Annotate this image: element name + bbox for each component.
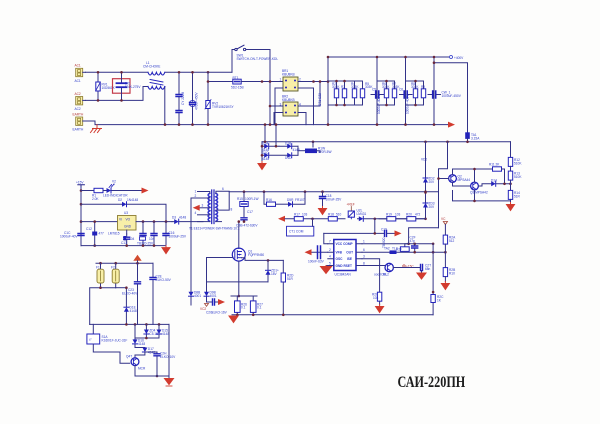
wire gate (207, 257, 233, 259)
ground under C18 (319, 207, 327, 215)
transformer T1 secondary winding (216, 193, 218, 221)
ground loop bottom wire (232, 314, 433, 316)
resistor R6 (382, 81, 390, 105)
capacitor C14 (137, 222, 154, 246)
svg-text:2: 2 (299, 78, 301, 82)
wire right riser fan (135, 324, 169, 377)
resistor R22 (443, 225, 456, 245)
svg-text:F1: F1 (96, 265, 100, 269)
wire Q3 collector (474, 169, 476, 182)
diode D8 aux (189, 291, 202, 306)
bridge rectifier BR1 (280, 69, 302, 91)
svg-text:100uF-25V: 100uF-25V (326, 197, 343, 201)
svg-text:470R-5W: 470R-5W (318, 150, 331, 154)
transformer T1 pin 2 (191, 197, 210, 199)
svg-text:1000uF-400V: 1000uF-400V (377, 94, 381, 114)
regulator U3 (108, 211, 136, 235)
svg-text:D2: D2 (118, 198, 122, 202)
diode D12 (262, 151, 288, 161)
wire BR2 plus out riser (298, 82, 320, 107)
svg-text:8: 8 (363, 261, 365, 265)
transformer T1 pin 5 (198, 221, 210, 223)
svg-text:SWITCH-ON-T-POWER-KDL: SWITCH-ON-T-POWER-KDL (237, 57, 279, 61)
wire fuse bottoms (90, 288, 116, 325)
capacitor C25 (206, 299, 228, 314)
junction on N at CX1 (120, 99, 123, 102)
svg-text:Q4T: Q4T (126, 355, 132, 359)
svg-text:GND: GND (124, 225, 132, 229)
op-amp U1 PWM controller box (334, 240, 388, 277)
wire L down to thermistor row (208, 72, 233, 81)
svg-text:AC1: AC1 (75, 79, 81, 83)
switch SW1 (235, 45, 279, 61)
svg-text:TL2: TL2 (392, 246, 398, 250)
ground arrow under sense (229, 316, 238, 323)
svg-text:1N4148: 1N4148 (127, 198, 138, 202)
svg-text:4148: 4148 (262, 157, 269, 161)
transformer T1 primary winding (208, 193, 210, 221)
capacitor C26 (145, 351, 176, 376)
fuse K2 (111, 263, 119, 288)
wire BR1 left bottom (275, 88, 283, 125)
svg-text:FQPF9N50: FQPF9N50 (248, 253, 264, 257)
svg-text:4148: 4148 (162, 332, 169, 336)
brown flag VCC chain (441, 217, 448, 225)
svg-text:VI VO: VI VO (119, 218, 131, 222)
wire BR2 minus out (298, 113, 306, 125)
capacitor C22 (421, 264, 432, 272)
svg-text:T1 EE19-POWER-SW-TRANS 10:1: T1 EE19-POWER-SW-TRANS 10:1 (189, 227, 240, 231)
wire aux top (96, 262, 153, 264)
svg-text:1000uF-25V: 1000uF-25V (169, 235, 187, 239)
svg-text:0.1: 0.1 (257, 306, 262, 310)
svg-text:R15: R15 (237, 197, 243, 201)
svg-text:TVR10621KSY: TVR10621KSY (212, 105, 234, 109)
svg-text:10D561K: 10D561K (102, 86, 116, 90)
zener ZD3 (423, 193, 435, 219)
aux rail (262, 141, 511, 143)
svg-text:3: 3 (363, 255, 365, 259)
common mode choke L1 (143, 61, 165, 89)
svg-text:5D2-15B: 5D2-15B (231, 86, 244, 90)
wire U3 out rail (136, 221, 172, 223)
svg-text:САИ-220ПН: САИ-220ПН (398, 374, 466, 392)
ground under chain (507, 203, 515, 211)
capacitor C21 (410, 236, 418, 253)
resistor R3 (341, 81, 347, 105)
wire to IC pin riser (324, 233, 328, 243)
capacitor CX1 in red box (113, 72, 142, 100)
wire startup feed bend (409, 228, 439, 244)
transformer T1 core (212, 190, 214, 224)
wire riser to switch (232, 50, 234, 73)
resistor R21 (396, 244, 409, 252)
cell3 sub wires (406, 81, 424, 105)
svg-text:5: 5 (329, 261, 331, 265)
diode D15 (157, 324, 170, 338)
net tap VCC2 red (200, 304, 209, 311)
svg-text:MPSA44: MPSA44 (458, 178, 471, 182)
electrolytic C2 (189, 72, 198, 124)
resistor R13 (508, 166, 522, 180)
fuse K1 (96, 263, 104, 288)
svg-text:4148: 4148 (179, 216, 186, 220)
resistor R7 (392, 81, 400, 105)
cell2 sub wires (377, 81, 395, 105)
svg-text:AC2: AC2 (75, 107, 81, 111)
svg-text:LM431: LM431 (357, 212, 367, 216)
wire clamp branch (264, 192, 267, 205)
svg-text:R10: R10 (449, 272, 455, 276)
svg-text:8: 8 (231, 208, 233, 212)
wire source down (238, 261, 240, 296)
wire feedback right riser (432, 244, 434, 315)
svg-text:47p: 47p (410, 239, 416, 243)
zener ZD2 (421, 142, 435, 193)
wire gate lower row (207, 281, 269, 283)
capacitor C6 electrolytic (399, 88, 412, 115)
ground under R23 (441, 282, 449, 290)
connector EARTH (73, 113, 86, 132)
svg-text:104: 104 (149, 237, 155, 241)
wire drive rail from T1 pin6 (229, 191, 438, 193)
wire Q2 emitter to Q3 base (453, 182, 471, 186)
wire R22 to junction (444, 244, 446, 268)
wire BR1 plus out (298, 81, 328, 83)
wire Q4 emitter (135, 366, 169, 376)
ground under C22 (417, 271, 426, 280)
resistor R8 (411, 81, 419, 105)
wire drain from rail (238, 222, 240, 249)
svg-text:472: 472 (415, 212, 421, 216)
svg-text:+400V: +400V (454, 56, 464, 60)
transformer T1 pin 7 (216, 221, 222, 223)
capacitor C15 (149, 222, 157, 246)
node +400V (450, 56, 465, 60)
svg-text:Q3 MPSA42: Q3 MPSA42 (470, 191, 488, 195)
svg-text:R16: R16 (266, 198, 272, 202)
wire Q3 emitter bottom (453, 190, 511, 201)
svg-text:FR107: FR107 (295, 198, 305, 202)
wire riser from bridge to diode block (265, 125, 276, 147)
ground rail of regulator (81, 245, 166, 247)
resistor R5 (360, 81, 373, 105)
svg-text:V2: V2 (112, 180, 116, 184)
bridge rectifier BR2 (280, 95, 302, 117)
capacitor C12 electrolytic (86, 222, 104, 246)
svg-text:CM-CHOKE: CM-CHOKE (143, 65, 160, 69)
svg-text:C12: C12 (86, 227, 92, 231)
wire COMP net (362, 243, 433, 245)
svg-text:20V: 20V (429, 205, 436, 209)
svg-text:R19: R19 (386, 212, 392, 216)
power flag triangle (133, 255, 141, 263)
svg-text:4148: 4148 (293, 148, 300, 152)
svg-text:CT1-EZ2: CT1-EZ2 (318, 93, 322, 106)
svg-text:4148: 4148 (138, 342, 145, 346)
diode D6 (359, 216, 364, 221)
current transformer box CT (287, 219, 314, 236)
svg-text:4: 4 (329, 255, 331, 259)
svg-text:100nF-63V: 100nF-63V (308, 260, 325, 264)
svg-text:ELKO-16V: ELKO-16V (212, 310, 228, 314)
ground under diode block (258, 162, 266, 170)
svg-text:C13: C13 (121, 241, 127, 245)
svg-text:100R-1W: 100R-1W (245, 197, 258, 201)
svg-text:6: 6 (363, 248, 365, 252)
svg-text:VCC COMP: VCC COMP (336, 242, 354, 246)
transformer T1 pin 1 (198, 192, 210, 194)
wire startup tap riser (439, 142, 448, 228)
resistor R20 (396, 212, 426, 221)
capacitor C7 electrolytic (428, 91, 462, 99)
current sense wires (231, 295, 257, 297)
rail verticals (328, 57, 434, 125)
svg-text:1: 1 (195, 190, 197, 194)
filter cap C1 string (176, 72, 185, 124)
red arrow comp out (395, 230, 402, 236)
transformer T1 pin 3 (200, 207, 210, 209)
svg-text:20V: 20V (429, 180, 436, 184)
svg-text:512: 512 (449, 239, 455, 243)
wire N after choke down (164, 87, 166, 125)
svg-text:18V: 18V (271, 272, 278, 276)
svg-text:VD2: VD2 (421, 158, 427, 162)
svg-text:4001: 4001 (210, 294, 217, 298)
ground symbol regulator (162, 246, 170, 254)
diode D2 (81, 198, 166, 222)
svg-text:F2: F2 (111, 265, 115, 269)
wire aux vertical left (190, 198, 192, 291)
diode D14 (478, 179, 510, 187)
ground at U1 GND pin (321, 266, 332, 274)
resistor R23 (443, 268, 455, 277)
svg-text:51R: 51R (287, 277, 294, 281)
wire fan top rail (90, 323, 169, 325)
DC+ top rail (328, 56, 449, 58)
svg-text:1000uF-450V: 1000uF-450V (442, 94, 462, 98)
zener ZD4 (144, 324, 158, 338)
resistor R2 (332, 81, 340, 105)
diode D9 aux (204, 282, 217, 302)
junction on L at varistor (97, 71, 100, 74)
svg-text:4148: 4148 (130, 309, 137, 313)
resistor R1 (81, 188, 103, 201)
zener ZD1 (266, 260, 280, 282)
diode D16 (133, 339, 146, 348)
resistor R19 (379, 212, 401, 221)
svg-text:AC2: AC2 (75, 92, 81, 96)
svg-text:C5: C5 (372, 88, 376, 92)
varistor RV2 (205, 82, 234, 125)
resistor R26 sense (235, 301, 248, 313)
svg-text:0.1: 0.1 (241, 306, 246, 310)
wire source right (242, 258, 284, 261)
net +15 red tap (403, 265, 415, 269)
transistor Q4 (126, 355, 146, 371)
diode D3 (172, 216, 203, 225)
diode D13 (285, 153, 298, 160)
svg-text:KBU8KB: KBU8KB (282, 98, 295, 102)
svg-text:51R: 51R (514, 194, 521, 198)
transformer T1 pin 4 (198, 214, 210, 216)
capacitor C24 (150, 263, 172, 324)
diode block side wires (262, 142, 298, 162)
svg-text:TA2: TA2 (384, 246, 390, 250)
resistor R18 (328, 212, 342, 221)
resistor R25 on source riser (281, 260, 294, 314)
svg-text:R18: R18 (328, 212, 334, 216)
red arrow DC- out (448, 122, 455, 128)
svg-text:AC1: AC1 (75, 64, 81, 68)
resistor R24 (431, 295, 444, 303)
svg-text:103: 103 (373, 296, 379, 300)
resistor R14 (508, 180, 520, 199)
svg-text:MCR: MCR (138, 367, 146, 371)
wire feedback row (285, 218, 426, 220)
red arrow feedback in (278, 216, 285, 222)
wire driver out (393, 267, 419, 269)
diode D7 (116, 288, 137, 325)
resistor R16 (266, 198, 288, 207)
fuse TA1 (466, 133, 481, 142)
svg-text:CY 222M: CY 222M (181, 91, 185, 105)
wire ISE to driver (362, 259, 380, 292)
svg-text:1000uF-40V: 1000uF-40V (60, 235, 78, 239)
svg-text:R17: R17 (294, 212, 300, 216)
wire zener row join (135, 324, 159, 339)
svg-text:2: 2 (195, 194, 197, 198)
transistor Q1 MOSFET (232, 248, 264, 261)
svg-text:R20: R20 (406, 212, 412, 216)
svg-text:104: 104 (129, 237, 135, 241)
svg-text:D14: D14 (491, 179, 497, 183)
wire N to choke (86, 87, 149, 101)
junction on N at varistor (97, 99, 100, 102)
svg-text:ELKO-50V: ELKO-50V (156, 278, 172, 282)
shunt regulator U2 TL431 (347, 203, 367, 219)
wire L phase top (86, 71, 149, 73)
svg-text:LED-INDICATOR: LED-INDICATOR (103, 194, 128, 198)
snubber resistor R15 (237, 192, 258, 217)
wire 15V rail to U3 (81, 221, 118, 223)
svg-text:OSC ISE: OSC ISE (336, 257, 352, 261)
wire OUT net (362, 251, 445, 253)
capacitor C23 electrolytic (122, 263, 141, 324)
capacitor C13 under U3 (121, 234, 135, 246)
svg-text:EARTH: EARTH (73, 128, 84, 132)
wire +400V branch to fuse (434, 63, 468, 133)
svg-text:U3: U3 (124, 211, 128, 215)
resistor R27 sense (250, 301, 263, 313)
transistor Q3 (470, 182, 488, 194)
capacitor C11 (60, 227, 84, 246)
svg-text:470uF-450V: 470uF-450V (195, 92, 199, 110)
svg-text:VFB OUT: VFB OUT (336, 250, 354, 254)
svg-text:103: 103 (302, 212, 308, 216)
wire gate branch down (206, 258, 208, 282)
svg-text:CBB-472-630V: CBB-472-630V (236, 224, 258, 228)
snubber capacitor C17 (236, 210, 258, 228)
svg-text:LM7815: LM7815 (108, 232, 120, 236)
red arrow LED out (142, 188, 149, 194)
thermistor RT1 (231, 76, 244, 90)
svg-text:C19: C19 (381, 228, 387, 232)
svg-text:4: 4 (195, 211, 197, 215)
svg-text:1: 1 (363, 240, 365, 244)
junction L split (207, 71, 210, 74)
svg-text:VC: VC (441, 217, 446, 221)
svg-text:68n: 68n (425, 267, 431, 271)
connector AC1 (75, 64, 86, 83)
svg-text:1000uF-400V: 1000uF-400V (406, 94, 410, 114)
diode D17 (135, 347, 155, 358)
red arrow aux out (218, 299, 225, 305)
resistor R10 5W (298, 147, 331, 155)
svg-text:510K: 510K (514, 161, 522, 165)
red arrow winding tap (193, 205, 200, 211)
capacitor C20 on VFB pin (305, 246, 328, 264)
transistor Q2 (449, 175, 471, 183)
svg-text:3.15A: 3.15A (471, 137, 480, 141)
svg-text:D5R: D5R (287, 198, 294, 202)
capacitor C5 electrolytic (371, 88, 384, 115)
capacitor C18 (320, 192, 343, 207)
resistor chain R12 (508, 142, 522, 167)
capacitor C19 (381, 228, 396, 249)
wire switch to bridge riser (246, 50, 270, 125)
wire BR2 left top (270, 105, 283, 107)
chassis ground PE (red) (91, 125, 102, 133)
resistor R2G on OUT (384, 246, 398, 254)
cell1 sub wires (328, 81, 363, 105)
resistor R9 (421, 81, 426, 105)
svg-text:C17: C17 (247, 210, 253, 214)
svg-text:103: 103 (395, 212, 401, 216)
svg-text:6: 6 (222, 187, 224, 191)
svg-text:D3: D3 (172, 216, 176, 220)
svg-text:2.0K: 2.0K (92, 197, 99, 201)
wire thermistor to bridge (241, 81, 283, 83)
resistor R11 (489, 162, 505, 184)
ground fan (165, 379, 174, 387)
wire Q2 base (439, 178, 449, 180)
svg-text:4001: 4001 (194, 294, 201, 298)
diode D11 (279, 142, 300, 153)
svg-text:2: 2 (329, 248, 331, 252)
svg-text:GND RSET: GND RSET (336, 264, 353, 268)
svg-text:UC3842AN: UC3842AN (335, 273, 352, 277)
thermostat S1 (87, 324, 130, 363)
svg-text:ELKO-40V: ELKO-40V (122, 291, 138, 295)
wire PE / bottom rail (86, 121, 450, 125)
connector AC2 (75, 92, 86, 111)
svg-text:510K: 510K (514, 175, 522, 179)
wire BR1 minus out (298, 88, 314, 125)
wire BR2 left bottom (274, 113, 283, 125)
wire Q2 collector loop (453, 169, 493, 175)
wire after choke to switch riser (165, 71, 232, 73)
U1 pin stubs (328, 244, 362, 266)
svg-text:1: 1 (280, 78, 282, 82)
wire R10 to rail (312, 142, 314, 147)
diode D5 (287, 192, 305, 207)
svg-text:474K-275V: 474K-275V (125, 85, 142, 89)
varistor RV1 (96, 72, 116, 100)
svg-text:7: 7 (329, 240, 331, 244)
svg-text:KSD01F-JUC-31F: KSD01F-JUC-31F (102, 339, 128, 343)
capacitor C16 (163, 222, 187, 246)
